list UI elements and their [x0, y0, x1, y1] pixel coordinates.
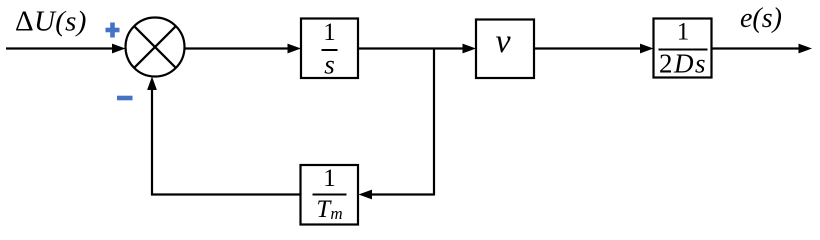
node takeoff junction after 1/s [433, 49, 435, 196]
wire block v to block 1/2Ds [534, 44, 654, 54]
svg-text:1: 1 [677, 19, 690, 46]
svg-text:2Ds: 2Ds [659, 49, 707, 79]
wire block 1/s to block v [358, 44, 476, 54]
block 1/s [301, 19, 358, 80]
svg-text:e(s): e(s) [740, 3, 782, 34]
svg-text:v: v [495, 23, 511, 60]
svg-text:s: s [324, 50, 335, 80]
summing junction sign + [106, 23, 120, 38]
svg-text:1: 1 [323, 165, 336, 192]
wire input arrow into summing junction [6, 44, 126, 54]
wire summing junction to block 1/s [185, 44, 302, 54]
wire output arrow [712, 44, 813, 54]
block 1/Tm [301, 165, 359, 225]
svg-text:ΔU(s): ΔU(s) [15, 6, 87, 38]
wire feedback from 1/Tm up into summing junction [147, 77, 300, 195]
svg-text:1: 1 [323, 19, 336, 46]
block v [476, 20, 534, 79]
summing junction circle with X [126, 18, 185, 77]
wire takeoff down and left into block 1/Tm [359, 190, 435, 200]
block 1/2Ds [654, 19, 712, 79]
summing junction sign - [117, 96, 133, 101]
